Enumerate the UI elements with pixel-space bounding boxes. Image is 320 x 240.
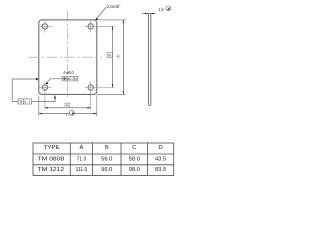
extension lines for dim A (top & bottom edges extended right) (97, 20, 126, 95)
svg-text:B: B (105, 145, 109, 151)
svg-text:1.5: 1.5 (158, 7, 164, 12)
arrow C right (94, 113, 97, 115)
svg-text:0.1: 0.1 (24, 100, 30, 104)
thickness arrow right (151, 13, 154, 15)
arrow D left (45, 107, 48, 109)
svg-text:TM 1212: TM 1212 (38, 167, 65, 173)
svg-text:TM 0808: TM 0808 (38, 156, 65, 162)
leader from frame to bottom edge (32, 98, 56, 101)
svg-text:C: C (132, 145, 136, 151)
hole bottom-left (42, 85, 47, 90)
arrow B bottom (112, 84, 114, 87)
parallel symbol (20, 100, 21, 103)
svg-text:56.0: 56.0 (101, 156, 112, 162)
svg-text:71.0: 71.0 (77, 156, 87, 162)
label D (boxed) (65, 103, 70, 108)
svg-text:58.0: 58.0 (129, 156, 140, 162)
svg-text:111.0: 111.0 (76, 167, 88, 173)
hole top-left crosshair (39, 20, 52, 32)
svg-text:D: D (159, 145, 163, 151)
arrow D right (88, 107, 91, 109)
position leader to bottom-left hole (46, 79, 62, 84)
revision balloon near 1.5 (166, 6, 171, 11)
hole top-left (42, 24, 47, 29)
revision balloon near C (69, 110, 74, 115)
arrow C left (39, 113, 42, 115)
svg-text:2.0x45°: 2.0x45° (107, 4, 121, 9)
position leader arrowhead (45, 82, 48, 84)
table row TM 1212 (38, 167, 167, 173)
vertical centerline (66, 11, 68, 99)
svg-text:⌀0.2: ⌀0.2 (67, 77, 74, 81)
svg-text:D: D (66, 104, 69, 108)
svg-text:96.0: 96.0 (101, 167, 112, 173)
dimension line D (horizontal, hole to hole) (45, 107, 91, 109)
horizontal centerline (29, 56, 102, 58)
position symbol (63, 77, 66, 80)
svg-text:TYPE: TYPE (43, 145, 59, 151)
table row TM 0808 (38, 156, 167, 162)
hole top-right crosshair / B extension top (84, 20, 114, 32)
dimension line A (vertical, overall height) (122, 20, 124, 95)
dimension line B (vertical, hole to hole) (112, 26, 114, 87)
black arrow at left edge (36, 78, 39, 81)
data table (33, 143, 174, 176)
svg-text:83.5: 83.5 (155, 167, 166, 173)
side view thickness dimension line (142, 13, 156, 15)
arrow A top (123, 20, 125, 23)
thickness arrow left (145, 13, 148, 15)
chamfer leader arrowhead (95, 18, 98, 21)
table header row (43, 145, 162, 151)
hole top-right (88, 24, 93, 29)
label B (boxed) (107, 53, 112, 58)
dimension line C (horizontal, overall width) (39, 113, 97, 115)
side view plate (right) (148, 14, 150, 106)
black arrow at bottom edge (54, 95, 56, 99)
flatness tolerance frame (18, 99, 32, 104)
svg-text:43.5: 43.5 (155, 156, 166, 162)
position tolerance frame (62, 76, 78, 81)
arrow B top (112, 26, 114, 29)
hole bottom-right (88, 85, 93, 90)
svg-text:A: A (117, 54, 120, 58)
svg-text:B: B (108, 53, 111, 58)
svg-text:4-⌀5.0: 4-⌀5.0 (63, 70, 74, 75)
svg-text:C: C (66, 113, 69, 117)
extension lines for dim C (left & right edges extended down) (39, 95, 97, 116)
svg-text:A: A (79, 145, 83, 151)
plate outline (front view) (39, 20, 97, 95)
leader from frame to left edge (12, 79, 36, 101)
arrow A bottom (123, 91, 125, 94)
svg-text:98.0: 98.0 (129, 167, 140, 173)
hole bottom-left crosshair / D extension left (39, 81, 52, 110)
hole bottom-right crosshair / B+D extensions (84, 81, 114, 110)
chamfer leader (96, 7, 106, 19)
